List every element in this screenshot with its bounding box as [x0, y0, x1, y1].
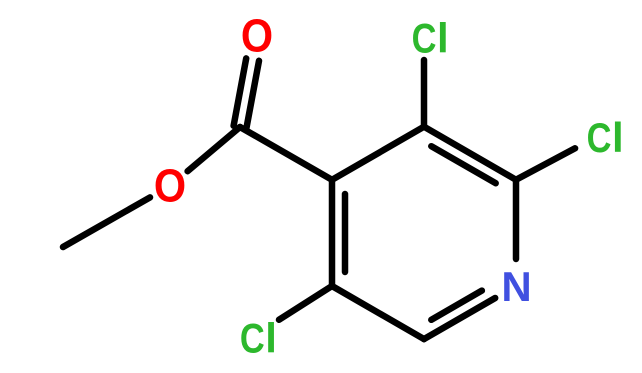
- wire: C7=O carbonyl double bond line 2: [234, 58, 247, 125]
- wire: CH3-O ester methyl bond: [63, 197, 150, 247]
- node Cl top chlorine: [412, 15, 449, 63]
- wire: ring C4-C3 bond: [332, 127, 424, 180]
- wire: ring N1=C6 bond inner: [431, 291, 482, 320]
- svg-text:O: O: [241, 10, 273, 62]
- wire: ring C3=C2 bond outer: [424, 127, 516, 180]
- svg-text:l: l: [612, 114, 624, 161]
- wire: ring C3=C2 bond inner: [431, 146, 495, 183]
- wire: ring C6-C5 bond: [332, 286, 424, 339]
- wire: C3-Cl top bond: [421, 60, 428, 127]
- node Cl right chlorine: [587, 114, 624, 162]
- wire: C7-C4 bond: [240, 127, 332, 180]
- svg-text:l: l: [265, 314, 277, 361]
- node Cl bottom chlorine: [240, 314, 277, 362]
- svg-text:C: C: [587, 115, 612, 162]
- wire: C2-Cl right bond: [516, 148, 575, 180]
- wire: O(ester)-C7 bond: [188, 127, 240, 171]
- wire: C5-Cl bottom bond: [279, 286, 332, 320]
- svg-text:l: l: [437, 15, 449, 62]
- wire: ring C2-N1 bond: [513, 180, 520, 259]
- wire: ring C5=C4 bond inner: [342, 194, 349, 272]
- svg-text:C: C: [240, 315, 265, 362]
- wire: C7=O carbonyl double bond line 1: [246, 61, 259, 128]
- svg-text:O: O: [154, 160, 186, 212]
- svg-text:N: N: [501, 263, 531, 310]
- wire: ring N1=C6 bond outer: [424, 298, 495, 339]
- wire: ring C5=C4 bond outer: [329, 180, 336, 286]
- svg-text:C: C: [412, 15, 437, 62]
